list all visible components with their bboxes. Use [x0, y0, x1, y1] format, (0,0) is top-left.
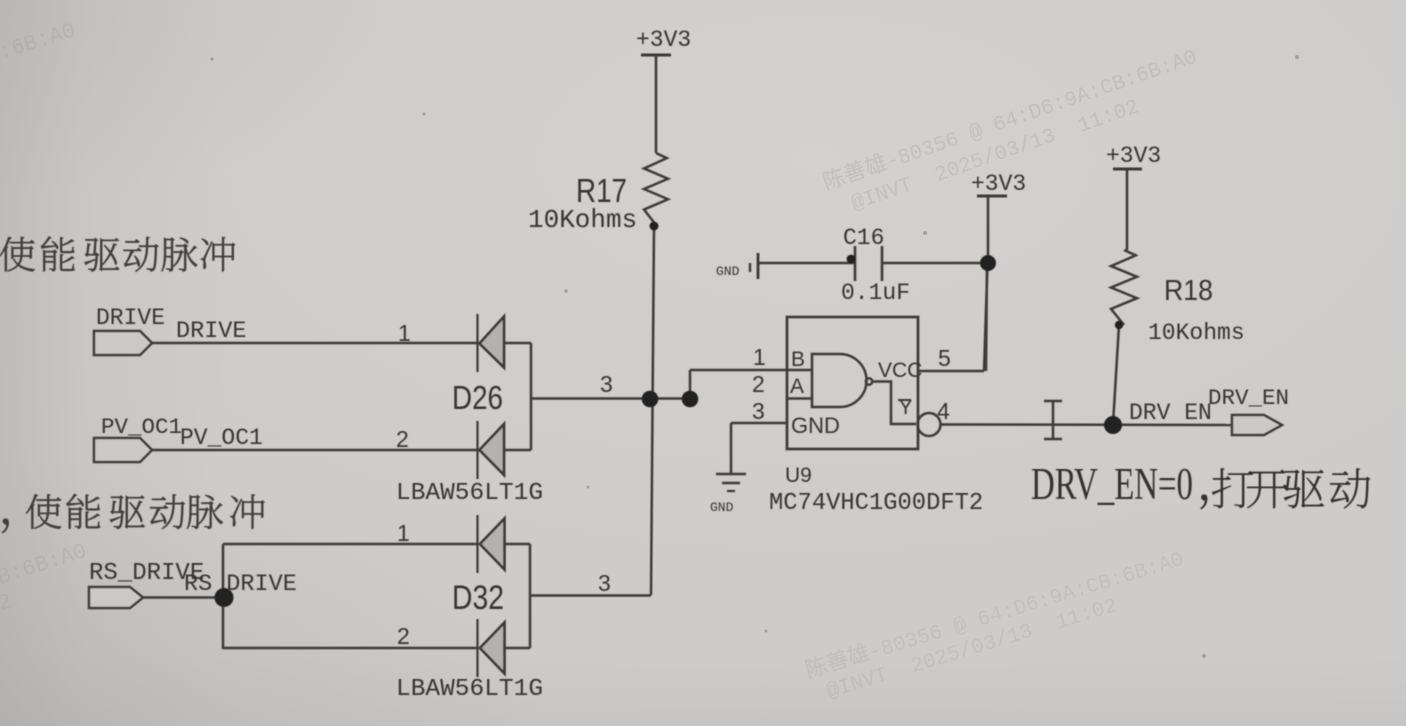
svg-text:MC74VHC1G00DFT2: MC74VHC1G00DFT2: [769, 490, 983, 517]
svg-text:R17: R17: [576, 172, 627, 209]
svg-text:DRIVE: DRIVE: [176, 318, 247, 345]
svg-text:PV_OC1: PV_OC1: [101, 414, 182, 440]
svg-text:3: 3: [600, 371, 613, 397]
svg-text:10Kohms: 10Kohms: [528, 205, 637, 235]
svg-text:5: 5: [938, 345, 951, 371]
svg-text:+3V3: +3V3: [636, 27, 691, 53]
svg-text:D26: D26: [452, 379, 503, 416]
svg-text:GND: GND: [710, 500, 734, 515]
svg-text:GND: GND: [791, 413, 840, 438]
svg-text:GND: GND: [716, 264, 740, 279]
svg-text:U9: U9: [785, 464, 812, 487]
svg-text:0.1uF: 0.1uF: [841, 280, 910, 306]
svg-text:2: 2: [752, 371, 765, 397]
svg-text:LBAW56LT1G: LBAW56LT1G: [396, 676, 543, 703]
svg-text:1: 1: [398, 320, 411, 346]
svg-text:RS DRIVE: RS DRIVE: [184, 571, 297, 598]
svg-text:A: A: [790, 375, 804, 398]
svg-text:3: 3: [752, 398, 765, 424]
svg-text:1: 1: [753, 344, 766, 370]
svg-text:LBAW56LT1G: LBAW56LT1G: [396, 480, 543, 507]
svg-text:DRV EN: DRV EN: [1129, 400, 1212, 426]
svg-text:D32: D32: [452, 579, 504, 617]
svg-text:B: B: [791, 348, 805, 371]
svg-text:+3V3: +3V3: [971, 171, 1026, 197]
svg-text:4: 4: [937, 398, 950, 424]
svg-text:+3V3: +3V3: [1106, 143, 1161, 169]
svg-text:2: 2: [397, 623, 410, 649]
svg-text:10Kohms: 10Kohms: [1148, 320, 1245, 346]
svg-text:DRIVE: DRIVE: [96, 305, 165, 331]
svg-text:C16: C16: [843, 225, 884, 251]
svg-text:2: 2: [396, 426, 409, 452]
svg-text:VCC: VCC: [878, 359, 922, 382]
svg-text:3: 3: [598, 570, 611, 596]
svg-text:1: 1: [397, 520, 410, 546]
svg-text:DRV_EN=0: DRV_EN=0: [1031, 459, 1193, 509]
svg-text:R18: R18: [1164, 275, 1213, 307]
svg-text:PV_OC1: PV_OC1: [180, 425, 263, 451]
svg-text:DRV_EN: DRV_EN: [1208, 385, 1289, 411]
